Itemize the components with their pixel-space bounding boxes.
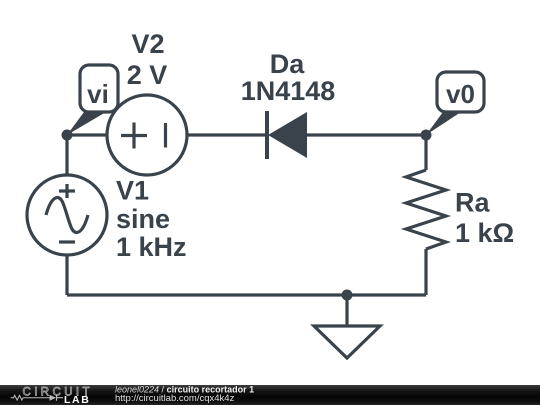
diode Da triangle	[268, 112, 307, 158]
svg-text:1 kHz: 1 kHz	[116, 232, 187, 262]
svg-text:V1: V1	[116, 176, 149, 206]
V1 plus symbol	[59, 184, 75, 198]
logo diode arrow	[50, 395, 57, 401]
wire V2 to diode Da	[187, 133, 267, 136]
flag vi box	[80, 65, 118, 112]
diode Da cathode bar	[265, 111, 269, 159]
wire V1 top lead	[65, 135, 68, 176]
node v0 junction dot	[421, 130, 432, 141]
ground stem wire	[345, 295, 348, 326]
wire diode to node v0	[307, 133, 426, 136]
wire V1 bottom lead	[65, 255, 68, 295]
V2 minus symbol (vertical bar)	[164, 123, 167, 148]
wire resistor bottom lead	[424, 249, 427, 295]
svg-text:http://circuitlab.com/cqx4k4z: http://circuitlab.com/cqx4k4z	[115, 393, 235, 404]
svg-text:2 V: 2 V	[127, 60, 168, 90]
ground junction dot	[342, 290, 353, 301]
flag v0 pointer wedge	[426, 112, 461, 135]
wire v0 to resistor Ra	[424, 135, 427, 170]
svg-text:1N4148: 1N4148	[241, 76, 336, 106]
svg-text:Da: Da	[270, 49, 305, 79]
svg-text:1 kΩ: 1 kΩ	[455, 218, 514, 248]
ground triangle symbol	[314, 326, 380, 358]
svg-text:V2: V2	[131, 29, 164, 59]
svg-text:LAB: LAB	[64, 394, 90, 405]
flag v0 box	[437, 72, 484, 112]
flag vi pointer wedge	[67, 112, 106, 135]
footer bar	[0, 385, 540, 405]
V1 minus symbol	[59, 240, 75, 243]
wire top left: node vi to V2	[67, 133, 108, 136]
svg-text:Ra: Ra	[455, 188, 490, 218]
node vi junction dot	[62, 130, 73, 141]
V1 sine wave	[46, 198, 88, 233]
svg-text:sine: sine	[116, 204, 170, 234]
logo diode bar	[57, 395, 64, 401]
resistor Ra zigzag	[406, 170, 446, 249]
wire bottom horizontal	[67, 293, 426, 296]
V2 plus symbol	[121, 123, 147, 149]
logo resistor squiggle wire	[11, 395, 50, 400]
voltage source V1 (sine) body	[27, 175, 107, 255]
svg-text:v0: v0	[446, 79, 475, 109]
svg-text:vi: vi	[87, 79, 109, 109]
voltage source V2 (2 V DC) body	[107, 95, 187, 175]
